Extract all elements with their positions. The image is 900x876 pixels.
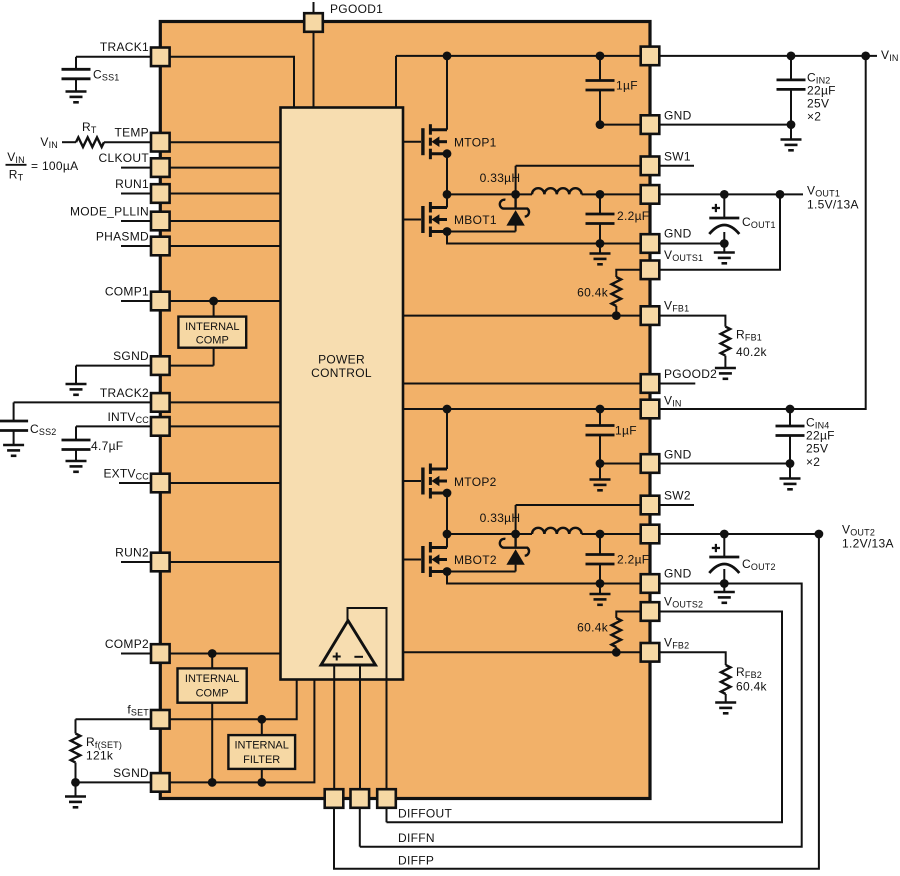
wire L1 to VOUT1 pin: [582, 193, 641, 195]
resistor RT: [76, 137, 104, 147]
pin SGND2: [151, 773, 170, 792]
svg-text:fSET: fSET: [127, 703, 149, 718]
pin VFB1 right: [641, 306, 660, 325]
node VIN2 external junction: [786, 405, 795, 414]
transistor MTOP2: [423, 464, 447, 499]
ground RFB2: [715, 703, 736, 714]
pin VIN2 right: [641, 400, 660, 419]
wire GND1 external: [660, 124, 791, 126]
svg-text:VIN: VIN: [664, 394, 682, 409]
node COMP2 junction: [208, 649, 217, 658]
wire MODE_PLLIN stub: [121, 220, 281, 222]
transistor MBOT1: [423, 202, 447, 237]
ground SGND1: [66, 384, 87, 395]
label COUT2 plus: [712, 544, 720, 552]
node gnd rail ch2 junction: [596, 579, 605, 588]
pin RUN2: [151, 553, 170, 572]
op-amp U2 diff amp: [321, 621, 376, 666]
node CIN4 gnd junction: [786, 459, 795, 468]
wire VFB1 internal: [403, 315, 641, 317]
svg-text:GND: GND: [664, 109, 692, 123]
wire TRACK2: [14, 401, 281, 403]
node COUT2 gnd junction: [720, 579, 729, 588]
capacitor 1uF ch1: [599, 56, 601, 81]
pin TEMP: [151, 133, 170, 152]
wire internal comp box to SGND: [213, 348, 215, 366]
resistor Rf(SET): [75, 719, 77, 733]
wire diffamp minus input: [359, 663, 361, 799]
diode D1 anode wire: [515, 226, 517, 232]
pin SW2 right: [641, 496, 660, 515]
wire SW2 node: [447, 533, 532, 535]
svg-text:MTOP2: MTOP2: [454, 475, 497, 489]
pin PHASMD: [151, 237, 170, 256]
pin COMP1: [151, 292, 170, 311]
svg-text:GND: GND: [664, 567, 692, 581]
svg-text:VFB2: VFB2: [664, 636, 689, 651]
wire PGOOD1: [313, 2, 315, 108]
wire PGOOD2 stub: [660, 383, 695, 385]
pin DIFFN bottom: [351, 789, 370, 808]
svg-text:MODE_PLLIN: MODE_PLLIN: [70, 205, 149, 219]
wire DIFFP net: [334, 534, 819, 869]
svg-text:25V: 25V: [806, 442, 828, 456]
node fSET junction: [257, 715, 266, 724]
pin VOUTS1 right: [641, 261, 660, 280]
svg-text:1µF: 1µF: [616, 79, 638, 93]
wire COMP2: [121, 653, 281, 655]
inductor L1 0.33uH: [532, 188, 582, 194]
wire VFB2 external: [660, 652, 726, 665]
diode D1 schottky: [500, 194, 529, 225]
pin VFB2 right: [641, 643, 660, 662]
transistor MTOP1 drain: [446, 56, 448, 130]
svg-text:0.33µH: 0.33µH: [480, 511, 521, 525]
transistor MBOT2 drain: [446, 534, 448, 548]
wire diffamp output: [348, 608, 387, 799]
svg-text:VOUTS1: VOUTS1: [664, 248, 703, 263]
ground COUT1: [723, 244, 725, 253]
transistor MBOT1 drain: [446, 194, 448, 207]
capacitor CIN4: [789, 409, 791, 426]
svg-text:2.2µF: 2.2µF: [617, 553, 649, 567]
svg-text:VIN: VIN: [881, 48, 899, 63]
wire VIN1 rail: [396, 56, 877, 108]
capacitor COUT1: [723, 194, 725, 218]
transistor MTOP2 drain: [446, 409, 448, 469]
svg-text:RFB1: RFB1: [736, 328, 762, 343]
wire GND2b external to DIFFN: [360, 584, 802, 847]
svg-text:PGOOD2: PGOOD2: [664, 367, 717, 381]
svg-text:2.2µF: 2.2µF: [617, 209, 649, 223]
pin DIFFOUT bottom: [377, 789, 396, 808]
transistor MTOP1: [423, 124, 447, 159]
transistor MTOP2 source: [446, 493, 448, 534]
svg-text:INTERNAL: INTERNAL: [185, 321, 239, 333]
svg-text:1.5V/13A: 1.5V/13A: [807, 198, 859, 212]
wire SW1 node: [447, 193, 532, 195]
node CIN2 gnd junction: [787, 120, 796, 129]
wire DIFFN net: [359, 800, 361, 847]
node VOUT2 junctions: [720, 530, 729, 539]
wire COMP1: [121, 300, 281, 302]
svg-text:EXTVCC: EXTVCC: [103, 467, 149, 482]
node COUT1 gnd junction: [720, 239, 729, 248]
diode D2 anode wire: [515, 565, 517, 572]
svg-text:RFB2: RFB2: [736, 665, 762, 680]
pin EXTVCC: [151, 474, 170, 493]
svg-text:MBOT1: MBOT1: [454, 213, 497, 227]
wire MBOT2 source to diode: [447, 571, 516, 573]
wire VFB2 internal: [403, 651, 641, 653]
svg-text:GND: GND: [664, 227, 692, 241]
pin VOUT2 right: [641, 525, 660, 544]
ground RFB1: [715, 368, 736, 379]
ground COUT2: [723, 584, 725, 592]
pin GND2 right: [641, 454, 660, 473]
svg-text:RT: RT: [9, 168, 24, 183]
wire COMP2 to internal comp box 2: [211, 654, 213, 669]
wire VOUTS2 to DIFFOUT: [387, 612, 783, 823]
wire SW1 stub: [516, 166, 694, 195]
svg-text:×2: ×2: [806, 455, 820, 469]
pin GND right: [641, 115, 660, 134]
svg-text:0.33µH: 0.33µH: [480, 171, 521, 185]
svg-text:TRACK1: TRACK1: [100, 40, 149, 54]
svg-text:VOUTS2: VOUTS2: [664, 595, 703, 610]
svg-text:COUT2: COUT2: [742, 557, 776, 572]
wire fSET net: [76, 680, 297, 720]
node VIN2 junctions internal: [443, 405, 452, 414]
node SW1 junctions: [443, 190, 452, 199]
transistor MBOT2: [423, 542, 447, 577]
svg-text:GND: GND: [664, 448, 692, 462]
wire GND2a: [600, 463, 641, 465]
svg-text:INTVCC: INTVCC: [107, 410, 149, 425]
svg-text:DIFFN: DIFFN: [398, 831, 435, 845]
wire VOUT1 external: [660, 193, 803, 195]
node VFB1 internal junction: [612, 311, 621, 320]
capacitor 4.7uF: [75, 426, 77, 440]
pin COMP2: [151, 644, 170, 663]
wire RUN1 stub: [121, 193, 281, 195]
wire VOUTS1: [660, 194, 780, 269]
wire SGND2 ground drop: [75, 782, 77, 796]
wire COMP1 to internal comp box: [213, 301, 215, 317]
ground CIN4: [789, 464, 791, 479]
svg-text:COMP1: COMP1: [105, 285, 149, 299]
internal filter box: [228, 735, 295, 769]
svg-text:DIFFOUT: DIFFOUT: [398, 807, 452, 821]
pin CLKOUT: [151, 158, 170, 177]
pin PGOOD1 top: [304, 13, 323, 32]
wire SGND2 net: [76, 680, 315, 783]
wire MBOT1 source to diode: [447, 231, 516, 233]
wire fSET to internal filter box: [261, 719, 263, 735]
svg-text:60.4k: 60.4k: [577, 286, 609, 300]
wire internal filter box to SGND2: [261, 769, 263, 783]
svg-text:CSS2: CSS2: [30, 422, 57, 437]
node GND2a junction: [596, 459, 605, 468]
wire VIN2 external: [660, 56, 866, 409]
pin VIN right: [641, 47, 660, 66]
pin VOUTS2 right: [641, 602, 660, 621]
svg-text:22µF: 22µF: [807, 84, 836, 98]
ground CSS1: [66, 92, 87, 103]
diode D2 schottky: [500, 534, 529, 565]
svg-text:MBOT2: MBOT2: [454, 553, 497, 567]
svg-text:TRACK2: TRACK2: [100, 386, 149, 400]
wire GND1a: [600, 124, 641, 126]
svg-text:4.7µF: 4.7µF: [91, 439, 123, 453]
pin INTVCC: [151, 417, 170, 436]
transistor MTOP2 gate wire: [403, 480, 421, 482]
wire SW2 stub: [516, 505, 694, 534]
svg-text:MTOP1: MTOP1: [454, 136, 497, 150]
capacitor COUT2: [723, 534, 725, 557]
power control block: [281, 108, 404, 680]
svg-text:VOUT1: VOUT1: [807, 184, 840, 199]
svg-text:COMP: COMP: [196, 688, 229, 700]
svg-text:CONTROL: CONTROL: [311, 366, 372, 380]
ground CIN2: [790, 125, 792, 139]
pin PGOOD2 right: [641, 374, 660, 393]
svg-text:PGOOD1: PGOOD1: [330, 2, 383, 16]
svg-text:SW1: SW1: [664, 150, 691, 164]
wire RT to TEMP pin and block: [104, 141, 281, 143]
pin MODE_PLLIN: [151, 212, 170, 231]
pin GND2B right: [641, 574, 660, 593]
node VFB2 internal junction: [612, 648, 621, 657]
pin FSET: [151, 710, 170, 729]
wire GND2 external: [660, 463, 790, 465]
svg-text:1µF: 1µF: [615, 424, 637, 438]
wire DIFFOUT net: [386, 800, 388, 822]
wire GND1b external: [660, 243, 724, 245]
svg-text:60.4k: 60.4k: [736, 680, 768, 694]
svg-text:RUN1: RUN1: [115, 177, 149, 191]
capacitor CSS2: [13, 402, 15, 421]
wire diffamp plus input: [333, 663, 335, 799]
svg-text:PHASMD: PHASMD: [96, 230, 149, 244]
svg-text:COUT1: COUT1: [742, 215, 776, 230]
wire PGOOD2 internal: [403, 383, 641, 385]
capacitor 2.2uF ch2: [599, 534, 601, 555]
svg-text:COMP2: COMP2: [105, 637, 149, 651]
svg-text:121k: 121k: [86, 749, 114, 763]
svg-text:SGND: SGND: [113, 349, 149, 363]
node MBOT2 source junction: [443, 567, 452, 576]
transistor MBOT1 gate wire: [403, 219, 421, 221]
wire SGND1: [76, 365, 214, 367]
node gnd rail ch1 junction: [596, 239, 605, 248]
ground CSS2: [3, 445, 24, 456]
node MBOT1 source junction: [443, 227, 452, 236]
node COMP1 junction: [209, 297, 218, 306]
wire VIN to RT: [62, 141, 76, 143]
pin TRACK2: [151, 393, 170, 412]
pin GND right: [641, 234, 660, 253]
svg-text:Rf(SET): Rf(SET): [86, 735, 122, 750]
node VOUT1 junctions: [720, 190, 729, 199]
wire PHASMD stub: [121, 245, 281, 247]
svg-text:DIFFP: DIFFP: [398, 854, 434, 868]
svg-text:VIN: VIN: [7, 150, 25, 165]
wire MBOT2 source to gnd rail: [447, 572, 641, 584]
capacitor CIN2: [790, 56, 792, 80]
internal comp box 2: [178, 668, 247, 702]
capacitor CSS1: [75, 57, 77, 70]
node SGND2 junctions: [71, 778, 80, 787]
ground internal ch2b: [599, 584, 601, 595]
pin RUN1: [151, 184, 170, 203]
ground internal ch2a: [599, 464, 601, 480]
ground internal ch1: [599, 244, 601, 254]
wire MBOT1 source to gnd rail: [447, 232, 641, 244]
wire VOUTS1 internal: [616, 270, 650, 277]
svg-text:22µF: 22µF: [806, 429, 835, 443]
inductor L2 0.33uH: [532, 528, 582, 534]
pin DIFFP bottom: [325, 789, 344, 808]
transistor MTOP1 gate wire: [403, 141, 421, 143]
svg-text:VFB1: VFB1: [664, 299, 689, 314]
resistor 60.4k internal ch1: [612, 277, 622, 306]
wire RUN2 stub: [121, 561, 281, 563]
svg-text:INTERNAL: INTERNAL: [234, 740, 288, 752]
svg-text:VOUT2: VOUT2: [842, 523, 875, 538]
resistor 60.4k internal ch2: [612, 618, 622, 647]
pin TRACK1: [151, 48, 170, 67]
svg-text:TEMP: TEMP: [114, 126, 149, 140]
resistor RFB2: [721, 665, 731, 694]
svg-text:FILTER: FILTER: [243, 754, 280, 766]
wire internal comp box 2 to SGND2: [211, 703, 213, 783]
node GND1a junction: [596, 120, 605, 129]
pin SW1 right: [641, 157, 660, 176]
svg-text:RT: RT: [82, 120, 97, 135]
wire INTVCC: [76, 425, 281, 427]
svg-text:VIN: VIN: [40, 135, 58, 150]
wire SGND1 ground drop: [75, 366, 77, 384]
svg-text:CSS1: CSS1: [93, 68, 120, 83]
svg-text:1.2V/13A: 1.2V/13A: [842, 537, 894, 551]
svg-text:= 100µA: = 100µA: [31, 159, 78, 173]
ground SGND2: [65, 797, 86, 808]
svg-text:CLKOUT: CLKOUT: [99, 151, 150, 165]
svg-text:40.2k: 40.2k: [736, 345, 768, 359]
wire EXTVCC stub: [119, 482, 281, 484]
svg-text:COMP: COMP: [196, 335, 229, 347]
svg-text:25V: 25V: [807, 97, 829, 111]
svg-text:SW2: SW2: [664, 489, 691, 503]
svg-text:SGND: SGND: [113, 766, 149, 780]
wire VIN2 internal: [403, 408, 641, 410]
wire VFB1 external: [660, 316, 725, 327]
node VIN1 junctions: [443, 52, 452, 61]
internal comp box 1: [178, 317, 246, 348]
wire CLKOUT stub: [121, 167, 281, 169]
svg-text:INTERNAL: INTERNAL: [185, 673, 239, 685]
capacitor 2.2uF ch1: [599, 194, 601, 214]
node SW2 junctions: [443, 530, 452, 539]
wire TRACK1 to block: [76, 57, 294, 108]
U1 uModule regulator body: [160, 22, 650, 799]
resistor RFB1: [721, 327, 731, 356]
svg-text:60.4k: 60.4k: [577, 621, 609, 635]
wire L2 to VOUT2 pin: [582, 533, 641, 535]
transistor MBOT2 gate wire: [403, 559, 421, 561]
svg-text:×2: ×2: [807, 110, 821, 124]
pin VOUT1 right: [641, 185, 660, 204]
wire VOUTS2 internal: [616, 612, 650, 619]
transistor MTOP1 source: [446, 154, 448, 195]
capacitor 1uF ch2: [599, 409, 601, 426]
svg-text:POWER: POWER: [318, 353, 365, 367]
label COUT1 plus: [712, 204, 720, 212]
pin SGND: [151, 356, 170, 375]
wire VOUT2 external: [660, 533, 819, 535]
svg-text:RUN2: RUN2: [115, 546, 149, 560]
ground 4.7uF: [66, 461, 87, 472]
